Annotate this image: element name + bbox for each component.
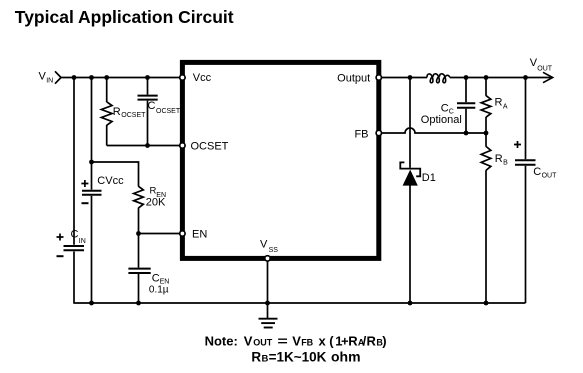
svg-text:OUT: OUT: [542, 173, 558, 180]
svg-text:Typical Application Circuit: Typical Application Circuit: [15, 7, 234, 27]
junction rail/RB: [484, 301, 489, 306]
IC U1 body: [182, 62, 378, 258]
svg-text:=: =: [277, 333, 288, 348]
wire RB branch upper: [485, 133, 487, 147]
label CIN: [71, 229, 86, 245]
wire ROCSET branch upper: [106, 78, 108, 103]
label VIN: [39, 71, 54, 85]
capacitor CVcc: [81, 180, 101, 203]
note line 1: [205, 333, 387, 348]
capacitor CIN: [57, 234, 85, 257]
svg-text:OCSET: OCSET: [121, 112, 146, 119]
svg-text:): ): [382, 333, 386, 348]
svg-text:Optional: Optional: [421, 114, 462, 126]
svg-text:V: V: [244, 333, 253, 348]
capacitor CC: [457, 103, 475, 108]
pin FB: [376, 130, 381, 135]
svg-text:V: V: [292, 333, 301, 348]
wire RA branch upper: [485, 78, 487, 96]
svg-text:0.1µ: 0.1µ: [149, 285, 169, 296]
pin OCSET: [180, 143, 185, 148]
svg-text:A: A: [503, 103, 508, 110]
wire CEN lower: [138, 274, 140, 303]
junction Output/COUT: [523, 75, 528, 80]
wire CVcc to REN: [92, 162, 139, 187]
junction EN tap: [136, 231, 141, 236]
label RB: [495, 153, 508, 166]
wire ROCSET branch lower: [106, 125, 108, 146]
svg-text:20K: 20K: [146, 197, 166, 209]
pin EN: [180, 231, 185, 236]
svg-text:R: R: [348, 333, 358, 348]
svg-text:C: C: [148, 100, 156, 112]
wire L1 to VOUT: [450, 77, 552, 79]
wire OCSET net: [107, 145, 181, 147]
svg-text:IN: IN: [46, 77, 53, 84]
capacitor COUT: [514, 141, 536, 165]
resistor RB: [481, 146, 491, 170]
pin Output: [376, 75, 381, 80]
junction VIN/COCSET: [145, 75, 150, 80]
label COCSET: [148, 100, 181, 115]
capacitor COCSET: [138, 96, 158, 100]
note line 2: [251, 348, 360, 364]
label CC Optional: [421, 103, 462, 127]
svg-text:=1K~10K: =1K~10K: [269, 349, 327, 364]
ground: [259, 319, 278, 328]
wire D1 branch lower: [409, 185, 411, 303]
svg-text:OCSET: OCSET: [156, 108, 181, 115]
wire FB net with hop: [382, 128, 486, 133]
svg-text:R: R: [495, 97, 503, 109]
wire CIN branch upper: [73, 78, 75, 245]
svg-text:C: C: [71, 229, 79, 241]
junction rail/CEN: [136, 301, 141, 306]
svg-text:C: C: [533, 166, 541, 178]
wire COUT branch lower: [525, 166, 527, 303]
node VIN input arrow: [55, 71, 61, 83]
wire Output net: [382, 77, 427, 79]
resistor RA: [481, 96, 491, 118]
diode D1: [400, 162, 420, 185]
junction Output/D1: [408, 75, 413, 80]
svg-text:ohm: ohm: [331, 348, 361, 364]
wire RB lower: [485, 170, 487, 303]
junction Output/RA: [484, 75, 489, 80]
wire RA to FB: [485, 117, 487, 133]
svg-text:CVcc: CVcc: [97, 175, 124, 187]
svg-text:IN: IN: [79, 238, 86, 245]
svg-text:R: R: [113, 106, 121, 118]
junction FB/RA/RB: [484, 131, 489, 136]
svg-text:OUT: OUT: [253, 337, 272, 347]
svg-text:OCSET: OCSET: [191, 141, 229, 153]
label CEN 0.1u: [149, 272, 169, 295]
resistor ROCSET: [101, 102, 112, 126]
label VSS: [260, 239, 278, 254]
label VOUT: [530, 57, 553, 72]
wire CVcc branch upper: [91, 78, 93, 190]
junction Output/CC: [464, 75, 469, 80]
junction VIN/CIN: [72, 75, 77, 80]
wire COCSET branch upper: [147, 78, 149, 95]
junction FB/CC: [464, 131, 469, 136]
svg-text:FB: FB: [301, 337, 313, 347]
svg-text:(: (: [329, 333, 334, 348]
capacitor CEN: [128, 269, 150, 273]
svg-text:EN: EN: [192, 228, 207, 240]
svg-text:SS: SS: [269, 247, 279, 254]
pin VSS: [265, 256, 270, 261]
svg-text:OUT: OUT: [537, 65, 553, 72]
resistor REN: [134, 186, 144, 208]
wire CVcc branch lower: [91, 196, 93, 303]
wire COCSET branch lower: [147, 101, 149, 146]
svg-text:FB: FB: [354, 129, 368, 141]
wire VIN top rail: [61, 77, 181, 79]
wire EN net: [139, 233, 182, 235]
junction rail/VSS: [265, 301, 270, 306]
wire CC branch lower: [465, 109, 467, 133]
junction VIN/CVcc: [89, 75, 94, 80]
svg-text:V: V: [260, 239, 268, 251]
svg-text:R: R: [251, 349, 261, 364]
svg-text:x: x: [319, 333, 327, 348]
wire CC branch upper: [465, 78, 467, 103]
label ROCSET: [113, 106, 146, 119]
svg-text:R: R: [367, 333, 377, 348]
wire REN to EN: [138, 208, 140, 268]
svg-text:D1: D1: [422, 172, 436, 184]
junction rail/CVcc: [89, 301, 94, 306]
label RA: [495, 97, 508, 111]
junction CVcc/REN tap: [89, 160, 94, 165]
label COUT: [533, 166, 557, 180]
svg-text:B: B: [262, 353, 269, 364]
junction VIN/ROCSET: [104, 75, 109, 80]
svg-text:Vcc: Vcc: [193, 72, 212, 84]
svg-text:C: C: [441, 103, 449, 115]
svg-text:Output: Output: [337, 73, 370, 85]
svg-text:R: R: [495, 153, 503, 165]
label REN 20K: [146, 185, 166, 208]
wire D1 branch upper: [409, 78, 411, 168]
wire VSS: [267, 258, 269, 318]
junction OCSET/COCSET: [145, 143, 150, 148]
inductor L1: [427, 74, 450, 83]
node VOUT arrow: [543, 72, 553, 82]
wire COUT branch upper: [525, 78, 527, 160]
svg-text:Note:: Note:: [205, 333, 238, 348]
wire ground rail: [73, 302, 525, 304]
wire CIN branch lower: [73, 252, 75, 304]
pin Vcc: [180, 75, 185, 80]
junction rail/D1: [408, 301, 413, 306]
svg-text:B: B: [503, 159, 508, 166]
svg-text:C: C: [152, 272, 160, 284]
